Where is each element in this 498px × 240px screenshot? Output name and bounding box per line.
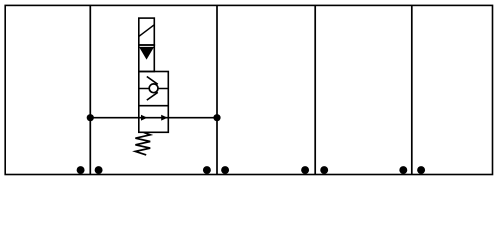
node: bottom dot rail3 right — [320, 166, 328, 174]
return spring — [135, 132, 150, 155]
check valve port line — [139, 88, 169, 90]
node: junction left — [87, 114, 94, 121]
node: bottom dot rail4 right — [417, 166, 425, 174]
wire: vertical rail 4 — [411, 5, 413, 174]
valve body — [139, 72, 169, 133]
check valve seat upper line — [147, 77, 158, 85]
solenoid actuator box — [139, 18, 155, 45]
node: bottom dot rail1 left — [77, 166, 85, 174]
flow path line through lower position — [139, 117, 169, 119]
node: bottom dot rail1 right — [95, 166, 103, 174]
flow arrowhead 1 — [141, 115, 147, 121]
flow arrowhead 2 — [161, 115, 167, 121]
node: bottom dot rail2 left — [203, 166, 211, 174]
frame border — [5, 5, 492, 174]
wire: vertical rail 3 — [314, 5, 316, 174]
pilot triangle (filled, pointing down) — [139, 47, 154, 60]
node: junction right — [213, 114, 220, 121]
valve position divider — [139, 105, 169, 107]
wire: vertical rail 2 — [216, 5, 218, 174]
wire: horizontal line valve to right junction — [168, 117, 217, 119]
check valve seat lower line — [147, 92, 158, 100]
node: bottom dot rail3 left — [301, 166, 309, 174]
check valve ball circle — [149, 84, 158, 93]
pilot box — [139, 45, 155, 72]
wire: horizontal line left junction to valve — [90, 117, 139, 119]
wire: vertical rail 1 — [89, 5, 91, 174]
solenoid diagonal stroke — [139, 25, 154, 37]
node: bottom dot rail4 left — [399, 166, 407, 174]
node: bottom dot rail2 right — [221, 166, 229, 174]
